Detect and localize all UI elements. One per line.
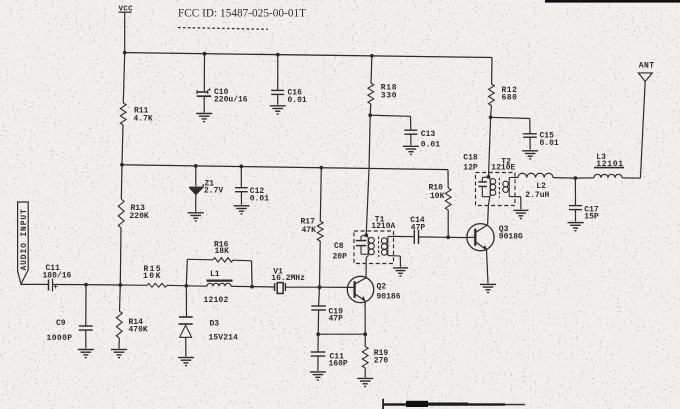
ground below T1: [393, 267, 408, 269]
wire R16 branch left riser: [186, 259, 187, 286]
resistor R10 10K: [429, 183, 452, 210]
svg-text:D3: D3: [210, 319, 220, 328]
capacitor C19 47P: [311, 306, 343, 324]
node junction C16 tap: [276, 53, 280, 57]
wire bottom link: [318, 333, 365, 335]
node junction VCC rail left: [123, 51, 127, 55]
transformer T1 1210A with C8: [354, 216, 400, 264]
labels C18 12P: [463, 153, 478, 172]
wire R18 vertical crossing to T1: [366, 169, 369, 235]
wire Z1 to ground: [195, 195, 197, 212]
wire T1 secondary to C14: [394, 235, 415, 237]
wire audio input to C11: [21, 283, 49, 285]
svg-text:18K: 18K: [215, 247, 230, 256]
wire C12 to ground: [240, 192, 242, 205]
node junction L1 right: [250, 285, 254, 289]
wire C16 stem: [277, 55, 279, 90]
labels C8 20P: [333, 242, 348, 261]
crystal V1 16.2MHz: [271, 267, 305, 293]
wire crystal to R17 node: [285, 286, 319, 288]
wire top supply rail: [125, 53, 492, 58]
ground below C9: [78, 349, 94, 351]
node junction L1 left: [184, 284, 188, 288]
svg-text:2.7uH: 2.7uH: [525, 191, 549, 200]
ground below C17: [568, 222, 584, 224]
ground below R14: [111, 349, 127, 351]
resistor R17 47K: [301, 168, 324, 241]
resistor R11: [120, 103, 153, 125]
black scan bar top right edge: [545, 0, 680, 3]
svg-text:16.2MHz: 16.2MHz: [271, 274, 305, 283]
wire left rail between R11 and mid rail: [122, 125, 123, 165]
resistor R18 330: [368, 56, 397, 104]
svg-text:0.01: 0.01: [250, 195, 269, 204]
transistor Q2 90186: [347, 276, 400, 302]
wire C10 to ground: [203, 96, 205, 112]
wire left rail between R13 and audio line: [119, 228, 122, 285]
ground below C11: [310, 371, 326, 373]
wire C11 bottom stem: [317, 334, 319, 351]
capacitor C13 0.01: [404, 130, 440, 149]
svg-text:1210E: 1210E: [491, 164, 515, 173]
capacitor C11 160P: [311, 352, 348, 369]
svg-text:330: 330: [381, 91, 398, 100]
ground below C15: [522, 150, 538, 152]
wire Q2 emitter down: [364, 301, 366, 334]
svg-text:15V214: 15V214: [209, 334, 239, 343]
wire D3 to ground: [185, 337, 187, 356]
node junction C13 tap: [368, 113, 372, 117]
capacitor C9 1000P: [47, 319, 93, 343]
wire antenna riser: [640, 81, 645, 178]
wire top rail corner down to R12: [491, 58, 493, 85]
wire D3 stem: [185, 286, 187, 317]
wire C17 stem: [574, 178, 576, 205]
capacitor C12 0.01: [235, 187, 269, 203]
resistor R16 18K: [187, 240, 251, 262]
svg-text:C9: C9: [56, 319, 66, 328]
svg-text:Q2: Q2: [377, 282, 387, 291]
capacitor C11 180/16 input electrolytic: [43, 264, 72, 292]
wire left rail R11 section: [123, 53, 124, 103]
node junction C12 tap: [239, 165, 243, 169]
svg-text:9018G: 9018G: [499, 233, 523, 242]
svg-text:47P: 47P: [329, 315, 344, 324]
wire C16 to ground: [277, 94, 279, 104]
wire C10 stem: [203, 54, 205, 91]
transformer T2 1210E with C18: [476, 157, 521, 205]
wire C14 to Q3 base node: [419, 236, 449, 238]
wire C15 branch: [491, 117, 530, 118]
wire T1 collector feed: [365, 258, 367, 264]
svg-text:10K: 10K: [143, 272, 162, 281]
transistor Q3 9018G: [467, 224, 523, 251]
wire T1 secondary bottom to ground: [399, 256, 401, 267]
ground below C13: [403, 145, 419, 147]
FCC ID title text: [178, 8, 306, 20]
resistor R19 270: [362, 334, 388, 368]
wire L3 to antenna riser: [622, 177, 640, 179]
wire C13 branch: [370, 115, 410, 116]
wire R15 to L1 node: [167, 284, 186, 287]
wire C19 to lower node: [317, 310, 319, 334]
ground below Z1: [188, 212, 204, 214]
svg-text:1000P: 1000P: [47, 334, 73, 343]
svg-text:270: 270: [374, 356, 389, 365]
wire C13 to ground: [410, 134, 412, 145]
svg-text:4.7K: 4.7K: [134, 115, 153, 124]
wire R17 node to Q2 base: [320, 286, 348, 288]
wire left rail R13 section: [120, 165, 123, 199]
wire C15 to ground: [529, 137, 531, 150]
node junction left rail audio line: [118, 283, 122, 287]
wire C17 to ground: [575, 210, 577, 222]
wire R14 to ground: [118, 338, 120, 349]
node junction R17 top: [319, 166, 323, 170]
svg-text:47P: 47P: [411, 223, 426, 232]
svg-text:15P: 15P: [584, 212, 599, 221]
resistor R15 10K: [143, 265, 167, 287]
node junction Z1 tap: [194, 164, 198, 168]
wire R19 to ground: [364, 368, 366, 377]
ground below C10: [196, 113, 212, 115]
resistor R13: [118, 199, 149, 228]
node junction C15 tap: [489, 115, 493, 119]
zener diode Z1 2.7V: [189, 180, 223, 196]
wire C11 to junction: [53, 284, 87, 286]
capacitor C14 47P: [410, 216, 425, 244]
svg-text:C8: C8: [334, 242, 344, 251]
svg-text:C18: C18: [463, 153, 478, 162]
varactor diode D3 15V214: [179, 317, 239, 343]
wire Q3 emitter to ground: [487, 250, 489, 284]
node junction C9 tap: [84, 283, 88, 287]
node junction T2 top: [487, 175, 491, 179]
svg-text:ANT: ANT: [639, 62, 655, 71]
svg-text:+: +: [54, 284, 58, 292]
wire R18 to C13 node: [369, 104, 372, 115]
svg-text:680: 680: [502, 93, 518, 102]
svg-text:470K: 470K: [129, 326, 148, 335]
capacitor C15 0.01: [523, 132, 559, 148]
svg-text:20P: 20P: [333, 252, 348, 261]
ground below C16: [270, 105, 286, 107]
ground below Q3: [480, 283, 496, 285]
svg-text:47K: 47K: [302, 226, 317, 235]
wire C9 to ground: [85, 330, 87, 349]
svg-text:AUDIO INPUT: AUDIO INPUT: [20, 208, 29, 270]
wire L2 to C17 node: [553, 177, 575, 180]
antenna ANT: [638, 62, 654, 82]
ground below T2: [513, 209, 528, 211]
wire audio line to R15: [120, 284, 147, 286]
dashed underline below FCC ID: [178, 28, 268, 30]
black scan bar bottom title block edge: [382, 399, 525, 409]
inductor L1 12102 tunable: [186, 270, 252, 305]
svg-text:12102: 12102: [204, 296, 229, 305]
node junction T1 top: [364, 233, 368, 237]
node junction crystal line R17: [318, 285, 322, 289]
node junction C10 tap: [203, 52, 207, 56]
svg-text:L2: L2: [536, 182, 546, 191]
capacitor C17 15P: [569, 205, 599, 221]
ground below R19: [357, 377, 373, 379]
inductor L2 2.7uH: [515, 173, 553, 200]
svg-text:180/16: 180/16: [43, 271, 72, 280]
inductor L3 12101 tunable: [594, 153, 624, 178]
wire mid rail: [122, 165, 448, 170]
wire Q3 collector to T2: [487, 205, 490, 224]
wire R12 node down to T2: [489, 117, 491, 177]
svg-text:+: +: [208, 86, 212, 93]
svg-text:0.01: 0.01: [288, 96, 307, 105]
wire junction to left rail crossing: [86, 284, 120, 286]
wire C17 node to L3: [575, 177, 594, 179]
svg-text:12P: 12P: [463, 163, 478, 172]
wire Q2 collector to T1: [365, 263, 367, 278]
wire C19 stem: [318, 287, 321, 305]
svg-text:90186: 90186: [377, 293, 401, 302]
svg-text:220K: 220K: [130, 212, 149, 221]
wire mid rail corner down to R10: [447, 170, 449, 188]
svg-text:160P: 160P: [329, 360, 348, 369]
wire L1 node to crystal: [252, 286, 274, 288]
svg-text:0.01: 0.01: [421, 140, 440, 149]
wire R17 to crystal line: [319, 241, 322, 287]
resistor R14 470K: [116, 285, 148, 338]
svg-text:C13: C13: [421, 130, 436, 139]
node junction left rail mid: [120, 163, 124, 167]
wire C11 to ground: [317, 356, 319, 371]
wire base node to Q3: [448, 236, 467, 238]
audio input connector flag: [18, 202, 29, 284]
wire Z1 stem: [195, 166, 197, 186]
svg-text:12101: 12101: [596, 160, 624, 169]
node junction C19 bottom: [316, 332, 320, 336]
wire T2 secondary bottom to ground: [520, 197, 522, 210]
svg-text:2.7V: 2.7V: [204, 186, 223, 195]
wire T2 primary bottom to Q3 collector: [488, 197, 489, 206]
node junction C17 tap: [574, 176, 578, 180]
ground below C12: [234, 205, 250, 207]
wire C9 stem: [85, 285, 87, 326]
node junction Q2 emitter bottom: [363, 332, 367, 336]
wire C12 stem: [240, 166, 242, 187]
svg-text:FCC ID: 15487-025-00-01T: FCC ID: 15487-025-00-01T: [178, 8, 306, 20]
svg-text:0.01: 0.01: [540, 139, 559, 148]
wire R10 to Q3 base node: [447, 210, 449, 237]
wire R18 node down to T1: [369, 115, 370, 169]
node junction R18 top: [370, 54, 374, 58]
wire VCC stem down to top rail: [124, 13, 126, 53]
capacitor C16 0.01: [271, 89, 307, 105]
capacitor C10 220u/16 electrolytic: [197, 86, 248, 104]
svg-text:220u/16: 220u/16: [214, 95, 248, 104]
svg-text:1210A: 1210A: [371, 222, 395, 231]
svg-text:10K: 10K: [430, 192, 445, 201]
wire R16 branch right riser: [251, 261, 254, 287]
VCC power label: [119, 6, 134, 14]
resistor R12 680: [489, 84, 518, 106]
wire R12 to C15 node: [490, 106, 493, 118]
svg-text:L1: L1: [210, 270, 220, 279]
node junction Q3 base: [446, 235, 450, 239]
ground below D3: [178, 357, 194, 359]
